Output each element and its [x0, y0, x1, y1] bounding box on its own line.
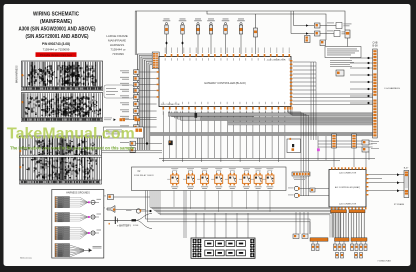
connector block E-01 (dense pin band)	[22, 61, 103, 91]
top feed wires	[204, 11, 345, 30]
svg-text:HARNESS: HARNESS	[110, 43, 125, 47]
svg-text:The information you need to fi: The information you need to fix your equ…	[10, 145, 135, 150]
nested wire bends under gateway	[169, 112, 255, 116]
connector J-01	[152, 52, 159, 69]
svg-text:CAB: CAB	[373, 42, 378, 45]
svg-text:J-06 CONNECTOR: J-06 CONNECTOR	[339, 173, 357, 175]
svg-text:(MAINFRAME): (MAINFRAME)	[40, 19, 72, 25]
gateway right edge pins	[290, 60, 293, 62]
component group outline	[104, 85, 134, 98]
switch with connector H1	[108, 195, 114, 200]
svg-text:+ BATTERY: + BATTERY	[117, 223, 131, 227]
sensor connector C06	[239, 25, 242, 34]
svg-text:B-07: B-07	[404, 168, 409, 170]
band edge connector dots	[22, 74, 24, 76]
mid note box	[287, 139, 301, 153]
wire drops from gateway J-05	[162, 112, 164, 163]
gateway left edge pins	[157, 71, 159, 73]
svg-text:7159444 or 7159099: 7159444 or 7159099	[43, 48, 70, 52]
A/C sensor circles	[294, 186, 298, 190]
svg-text:HARNESS GROUNDS: HARNESS GROUNDS	[66, 192, 90, 195]
revision note red banner	[36, 52, 77, 57]
component E-shape	[169, 141, 173, 146]
svg-text:J-06 CONNECTOR: J-06 CONNECTOR	[339, 204, 357, 206]
wire junction diamonds	[165, 41, 167, 44]
aux component A1	[130, 141, 136, 145]
svg-text:LARGE FRAME: LARGE FRAME	[106, 34, 128, 38]
svg-text:(S/N A5GY20001 AND ABOVE): (S/N A5GY20001 AND ABOVE)	[26, 34, 89, 40]
svg-text:FUSE RELAY CHECK: FUSE RELAY CHECK	[134, 174, 154, 177]
svg-text:Printable Version Click here: Printable Version Click here	[40, 53, 72, 57]
starter solenoid	[136, 209, 140, 213]
gateway J-05 bottom pins	[163, 107, 165, 110]
wires into fuse grid	[195, 213, 197, 238]
A/C connector strips below	[331, 210, 347, 213]
junction component	[195, 113, 198, 118]
connector block E-03 (dense pin band)	[20, 136, 102, 184]
wire pair to top bus	[134, 11, 136, 55]
svg-text:TakeManual.com: TakeManual.com	[7, 126, 135, 143]
vertical wire bundle right of gateway	[310, 62, 312, 140]
gateway input components	[134, 70, 140, 74]
svg-text:Bobcat-Iooa: Bobcat-Iooa	[20, 257, 33, 260]
note box highlighted wires	[325, 47, 361, 58]
A/C end devices	[312, 244, 315, 251]
svg-text:FUSE: FUSE	[133, 225, 139, 227]
A/C left side connector J-02	[292, 172, 310, 176]
title block	[19, 12, 96, 52]
svg-text:B-08: B-08	[372, 45, 378, 48]
svg-text:A/C CONTROLLER (GRAY): A/C CONTROLLER (GRAY)	[335, 186, 360, 189]
wires below cluster B-08	[365, 152, 367, 171]
sensor connector C03	[196, 25, 199, 34]
svg-text:WIRING SCHEMATIC: WIRING SCHEMATIC	[33, 12, 80, 18]
svg-text:GATEWAY CONTROLLER (BLACK): GATEWAY CONTROLLER (BLACK)	[204, 81, 246, 85]
wire bundle from connector J-01 down	[138, 54, 153, 150]
horn symbol	[107, 206, 115, 213]
relays K1-K8	[171, 175, 179, 183]
A/C controller pins	[331, 167, 333, 169]
relay K-10 with label	[291, 33, 314, 35]
fuel sender row	[114, 118, 116, 121]
relay K-09 with label	[294, 25, 315, 27]
aux component A2	[130, 148, 136, 152]
sensor note box	[104, 127, 144, 138]
svg-text:7159099: 7159099	[112, 52, 124, 56]
svg-text:MAINFRAME: MAINFRAME	[108, 39, 126, 43]
wires from connector block E-03 to relay area	[102, 149, 162, 151]
vertical connector V1 above A/C	[332, 134, 337, 148]
harness connector strip B-08	[373, 49, 378, 138]
svg-text:MAIN HARNESS: MAIN HARNESS	[16, 65, 19, 83]
sensor connector C05	[224, 25, 227, 34]
left A/C drop wires	[295, 212, 297, 234]
sensor connector C02	[181, 25, 184, 34]
gateway J-04 top pins	[165, 54, 167, 57]
sensor connector C04	[209, 25, 212, 34]
magenta marker	[317, 148, 320, 151]
relay row top bus	[159, 158, 375, 160]
A/C right edge pins	[366, 174, 368, 175]
routing bus below relay panel	[150, 191, 340, 238]
wires below buses to strip	[318, 140, 373, 142]
connector pair below relays	[305, 36, 311, 43]
svg-text:P/N 6902743 (3-08): P/N 6902743 (3-08)	[42, 42, 70, 46]
sensor connector C01	[165, 25, 168, 34]
harness grounds box	[52, 190, 104, 259]
svg-text:7159AG75AB: 7159AG75AB	[377, 259, 391, 262]
svg-text:RT FRAME: RT FRAME	[394, 203, 405, 206]
connector strip B-07	[404, 171, 409, 198]
svg-text:7159444 or: 7159444 or	[110, 48, 125, 52]
A/C controller U2 (gray)	[329, 170, 366, 208]
connector cluster below strip B-08	[362, 140, 369, 145]
svg-text:J-05 CONNECTOR: J-05 CONNECTOR	[161, 104, 180, 106]
svg-text:A300 (S/N A5GW20001 AND ABOVE): A300 (S/N A5GW20001 AND ABOVE)	[19, 27, 96, 33]
highlighted wire buses	[168, 113, 373, 116]
fuse F-13	[345, 30, 350, 38]
small component row left of A/C	[310, 188, 315, 192]
diode D1 assembly	[254, 28, 258, 37]
battery B1	[99, 219, 132, 221]
fuse panel grid	[191, 238, 255, 258]
relay drop wires	[173, 191, 175, 208]
gateway controller U1 (black)	[159, 57, 291, 107]
connector block E-02 (dense pin band)	[22, 93, 103, 122]
fuse relay panel box	[132, 167, 287, 191]
junction dots at strip	[367, 57, 369, 59]
gateway internal pin numbers	[164, 58, 167, 60]
sensor S-12	[336, 70, 344, 76]
gateway pin cluster right	[287, 107, 288, 110]
vertical connector V2 above A/C	[352, 134, 357, 148]
svg-text:C-04 HARNESS: C-04 HARNESS	[384, 87, 400, 90]
A/C harness bundle	[332, 213, 334, 238]
note text block	[330, 59, 352, 62]
harness id label	[106, 34, 128, 56]
